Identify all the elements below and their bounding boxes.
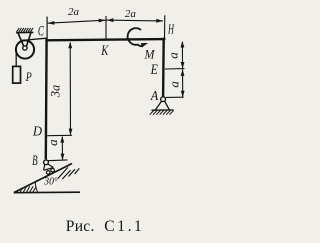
cord from pulley to C xyxy=(27,38,47,40)
tick at B level xyxy=(48,159,68,162)
svg-text:A: A xyxy=(150,89,159,104)
svg-text:H: H xyxy=(167,22,174,37)
moment M arc xyxy=(128,28,143,46)
svg-text:2a: 2a xyxy=(125,8,136,20)
svg-text:P: P xyxy=(25,69,32,84)
pin support A: ground hatching xyxy=(150,110,174,114)
svg-text:B: B xyxy=(32,153,38,169)
incline hatching right of roller shoe xyxy=(58,167,79,179)
svg-text:a: a xyxy=(166,52,181,59)
top dimension extension line at K xyxy=(105,16,107,39)
pulley bracket xyxy=(18,33,24,47)
pulley axle xyxy=(23,46,27,50)
svg-text:M: M xyxy=(144,48,156,62)
pin support A: triangle legs xyxy=(155,101,161,110)
column CB (left vertical member) xyxy=(45,39,48,160)
roller support B: rollers xyxy=(46,171,50,175)
cord from pulley down to weight xyxy=(15,50,17,67)
dimension line 2a (C to K) xyxy=(48,20,106,23)
svg-text:a: a xyxy=(167,81,182,88)
pulley wheel xyxy=(16,40,34,58)
ceiling line above pulley xyxy=(16,31,33,33)
pin support A: ground line xyxy=(152,109,174,111)
svg-text:D: D xyxy=(32,125,42,140)
incline hatching near vertex xyxy=(17,186,36,192)
svg-text:3a: 3a xyxy=(49,85,63,99)
pin support A: pin circle xyxy=(161,97,166,102)
roller support B: pin circle xyxy=(44,160,49,165)
svg-text:E: E xyxy=(150,62,158,78)
dimension line 2a (K to H) xyxy=(107,19,164,22)
beam CH (top horizontal member) xyxy=(45,39,165,40)
ground baseline xyxy=(14,191,80,194)
column HA (right vertical member) xyxy=(162,38,165,97)
top dimension extension line at C xyxy=(46,17,48,39)
dimension line 3a (C to D) xyxy=(69,43,71,135)
right dimension line a,a (H to E to A) xyxy=(181,42,183,97)
svg-text:K: K xyxy=(101,43,110,59)
top dimension extension line at H xyxy=(164,15,166,38)
tick at E xyxy=(165,68,185,70)
moment M arrowhead xyxy=(141,41,149,47)
inclined surface line xyxy=(14,164,72,193)
ceiling hatching xyxy=(16,28,33,33)
paper background xyxy=(0,0,194,243)
30 degree angle arc xyxy=(35,182,38,193)
svg-text:2a: 2a xyxy=(68,6,80,18)
roller support B: tilted triangle xyxy=(44,164,45,170)
svg-text:a: a xyxy=(45,139,60,146)
dimension line a (D to B) xyxy=(61,137,63,160)
svg-text:Рис.: Рис. xyxy=(66,218,95,235)
svg-text:С1.1: С1.1 xyxy=(104,218,144,235)
svg-text:C: C xyxy=(38,23,44,39)
tick at D xyxy=(47,134,72,136)
svg-text:30°: 30° xyxy=(43,176,58,188)
weight P box xyxy=(13,66,21,83)
extension line at A xyxy=(166,96,184,98)
